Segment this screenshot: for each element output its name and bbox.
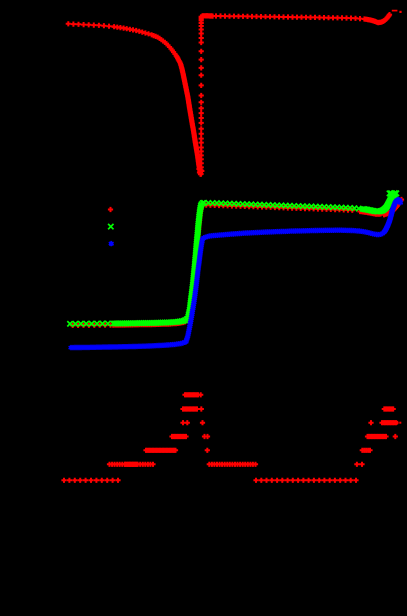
middle red curve: right end rise bbox=[381, 197, 404, 218]
top red curve: ascending branch (vertical column of + markers) bbox=[199, 14, 204, 173]
middle green curve: rise bbox=[112, 203, 203, 324]
bottom red scatter: right staircase rows bbox=[354, 406, 398, 467]
middle red curve (mostly hidden under green): left flat bbox=[70, 318, 189, 328]
middle red curve: plateau below green bbox=[204, 203, 384, 217]
bottom red scatter: clipped marker dash and dot at far right bbox=[396, 421, 398, 425]
top red curve: isolated end dot bbox=[399, 11, 401, 13]
bottom red scatter: centre peak right side bbox=[198, 392, 359, 483]
middle blue curve: rise bbox=[184, 235, 207, 344]
legend: blue asterisk marker bbox=[109, 241, 114, 246]
legend: green cross marker bbox=[108, 224, 113, 229]
top red curve: thin dash segment at far right bbox=[392, 10, 398, 12]
middle blue curve: left flat bbox=[69, 340, 188, 351]
bottom red scatter: left staircase rows bbox=[61, 392, 200, 483]
middle blue curve: plateau and right rise bbox=[71, 199, 401, 347]
middle red curve: rise bbox=[186, 202, 206, 322]
top red curve: upper plateau with small dip near right edge bbox=[200, 12, 392, 25]
top red curve: resonance dip, descending branch bbox=[112, 26, 201, 173]
middle green curve: plateau chain of x markers bbox=[201, 192, 397, 214]
legend: red plus marker bbox=[108, 207, 113, 212]
middle green curve: left flat with distinct x markers bbox=[67, 317, 189, 327]
middle green curve: small dashes top right bbox=[387, 190, 399, 196]
